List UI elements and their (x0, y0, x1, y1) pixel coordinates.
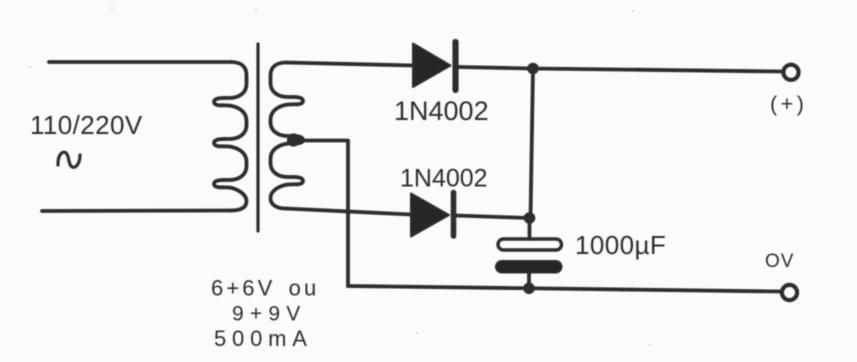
terminal 0V (782, 285, 797, 300)
wire center tap to 0V corner (294, 141, 348, 287)
transformer T1 primary winding (214, 62, 246, 211)
wire capacitor C1 bottom to junction C (527, 273, 531, 289)
AC sine symbol (58, 152, 80, 167)
svg-text:1000µF: 1000µF (575, 230, 666, 260)
wire D1 cathode to junction A (458, 67, 533, 69)
capacitor C1 negative plate (496, 261, 562, 273)
svg-text:1N4002: 1N4002 (400, 165, 488, 193)
scan speckles (decorative) (29, 7, 651, 346)
terminal (+) (783, 65, 798, 80)
wire primary top lead (49, 60, 231, 64)
svg-text:9+9V: 9+9V (232, 303, 306, 326)
wire junction A to (+) terminal (533, 69, 782, 72)
diode D1 1N4002 (413, 42, 456, 90)
svg-text:110/220V: 110/220V (30, 110, 143, 140)
wire junction B to capacitor C1 top (528, 218, 532, 239)
svg-text:1N4002: 1N4002 (394, 96, 489, 126)
wire junction A down to junction B (531, 69, 534, 219)
node junction B dot (524, 212, 536, 224)
diode D2 1N4002 (411, 193, 454, 237)
wire primary bottom lead (42, 209, 231, 213)
wire 0V rail (348, 286, 781, 292)
wire secondary top to D1 anode (286, 63, 413, 66)
node junction C dot (523, 283, 535, 295)
svg-text:6+6V ou: 6+6V ou (211, 276, 319, 301)
wire D2 cathode to junction B (456, 216, 530, 219)
svg-text:500mA: 500mA (214, 326, 313, 351)
node center tap dot (287, 133, 300, 146)
svg-text:(+): (+) (770, 92, 807, 116)
svg-text:OV: OV (765, 251, 794, 272)
transformer T1 core (256, 44, 259, 231)
transformer T1 secondary winding (271, 63, 303, 209)
node junction A dot (527, 63, 539, 75)
wire secondary bottom to D2 anode (286, 209, 411, 215)
capacitor C1 positive plate (498, 239, 562, 250)
